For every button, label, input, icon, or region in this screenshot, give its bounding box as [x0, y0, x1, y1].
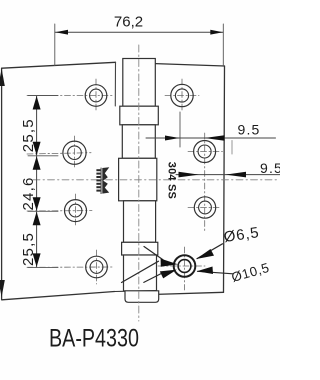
R1 extension down	[179, 112, 181, 147]
barrel knuckle K4	[124, 201, 156, 243]
svg-text:25,5: 25,5	[20, 118, 37, 152]
leader line D10,5	[122, 247, 234, 283]
dim 9.5 #1	[146, 135, 276, 141]
right leaf	[165, 95, 199, 97]
svg-text:9.5: 9.5	[237, 122, 260, 138]
hole L3	[65, 200, 87, 222]
top dimension 76,2	[55, 24, 224, 66]
leaf bottom line across barrel	[115, 290, 157, 293]
barrel knuckle K1	[123, 59, 156, 107]
svg-text:24,6: 24,6	[20, 177, 37, 211]
svg-text:76,2: 76,2	[114, 14, 143, 31]
barrel centerline (over white)	[138, 45, 140, 321]
dim 9.5 #2	[176, 172, 280, 178]
mid horizontal centerline	[33, 179, 277, 181]
barrel band B	[122, 242, 158, 255]
barrel knuckle K2	[122, 125, 155, 159]
barrel knuckle K5	[124, 255, 157, 291]
holes: crosshairs	[27, 79, 223, 290]
crown logo stamp	[96, 167, 109, 194]
scan artifact tick	[231, 141, 233, 155]
left leaf outline	[2, 62, 116, 299]
hole R1	[171, 84, 193, 106]
svg-text:Ø6,5: Ø6,5	[223, 224, 261, 246]
svg-text:304 SS: 304 SS	[166, 162, 178, 199]
svg-text:9.5: 9.5	[260, 160, 280, 176]
hole R4	[174, 255, 196, 277]
right leaf outline	[156, 64, 225, 295]
hole R3	[194, 197, 215, 218]
hole L1	[85, 85, 107, 107]
svg-text:BA-P4330: BA-P4330	[49, 324, 139, 352]
barrel knuckle K3	[119, 158, 157, 201]
svg-text:25,5: 25,5	[20, 232, 37, 266]
barrel bottom cap	[125, 291, 159, 303]
hole L4	[86, 256, 108, 278]
hole L2	[63, 141, 86, 164]
hole R2	[194, 141, 216, 163]
left chain dimension line	[28, 96, 58, 268]
rows to left chain	[27, 95, 112, 97]
svg-text:Ø10,5: Ø10,5	[230, 260, 272, 285]
barrel band A	[120, 106, 159, 125]
height dim arrows on left edge	[0, 69, 5, 298]
leader line D6,5	[144, 244, 223, 283]
